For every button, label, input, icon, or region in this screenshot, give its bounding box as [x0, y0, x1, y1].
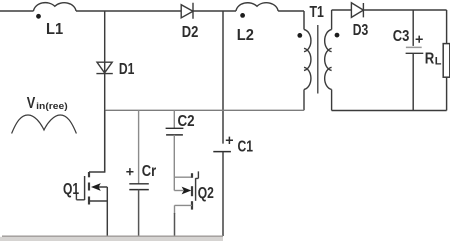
capacitor C3 [412, 10, 414, 46]
plus sign C3 [416, 36, 423, 43]
node A vertical D1 branch [104, 11, 106, 172]
node B vertical C1 branch [222, 11, 224, 144]
wire D2 to L2 [193, 10, 236, 12]
wire D3 to RL [363, 10, 446, 44]
diode D3 [351, 3, 363, 18]
diode D2 [181, 3, 193, 19]
dot T1 secondary phase [335, 33, 340, 38]
transistor Q1 [89, 110, 105, 172]
wire T1 to D3 [332, 9, 352, 11]
svg-text:Q1: Q1 [63, 181, 79, 198]
wire L2 to T1 [278, 11, 304, 30]
plus sign Cr [126, 168, 133, 175]
wire L1 to D2 [76, 10, 181, 12]
svg-text:Q2: Q2 [198, 185, 214, 202]
inductor L2 [236, 3, 278, 11]
plus sign C1 [226, 137, 233, 144]
svg-text:C1: C1 [238, 139, 254, 156]
wire secondary bottom [332, 110, 447, 112]
svg-text:T1: T1 [310, 4, 324, 21]
dot L1 phase [36, 14, 41, 19]
wire bottom rail [2, 235, 223, 237]
transformer T1 primary winding [304, 30, 311, 111]
svg-text:L2: L2 [237, 27, 254, 44]
shaded strip below bottom rail [0, 237, 223, 241]
diode D1 [96, 62, 112, 73]
svg-text:D2: D2 [182, 24, 199, 41]
svg-text:Cr: Cr [142, 163, 156, 180]
resistor RL [443, 44, 450, 78]
svg-text:L: L [435, 56, 442, 68]
dot L2 phase [240, 13, 245, 18]
capacitor C2 [173, 110, 175, 128]
svg-text:C2: C2 [178, 113, 195, 130]
dot T1 primary phase [297, 33, 302, 38]
transformer T1 secondary winding [325, 10, 332, 111]
capacitor Cr [138, 110, 140, 183]
wire mid rail [105, 109, 304, 111]
svg-text:C3: C3 [393, 28, 410, 45]
transistor Q2 [173, 135, 175, 191]
svg-text:in(ree): in(ree) [36, 101, 68, 112]
transformer T1 core [317, 25, 319, 94]
capacitor C1 [213, 151, 231, 153]
wire top input [0, 10, 34, 12]
svg-text:V: V [27, 95, 36, 112]
inductor L1 [34, 3, 77, 11]
svg-text:R: R [425, 51, 435, 68]
svg-text:D1: D1 [119, 61, 135, 78]
svg-text:L1: L1 [46, 21, 63, 38]
source waveform rectified sine [12, 115, 77, 134]
svg-text:D3: D3 [353, 22, 369, 39]
